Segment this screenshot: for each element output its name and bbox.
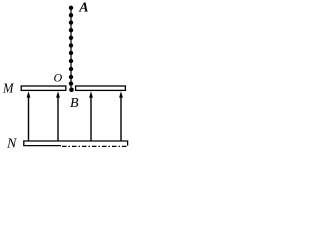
trajectory beads from A to B	[69, 6, 74, 93]
plate M right segment	[76, 86, 126, 90]
plate M left segment	[21, 86, 66, 90]
svg-text:O: O	[54, 71, 63, 85]
svg-text:M: M	[2, 82, 15, 97]
plate N bottom edge solid part	[23, 145, 61, 147]
field arrow 3	[89, 91, 93, 141]
field arrow 1	[27, 91, 31, 141]
field arrow 4	[119, 91, 123, 141]
svg-text:N: N	[6, 136, 17, 150]
svg-text:B: B	[70, 96, 79, 111]
plate N bar	[24, 141, 128, 146]
plate N bottom edge dash-dot part	[62, 145, 128, 147]
svg-text:A: A	[78, 1, 88, 16]
field arrow 2	[56, 91, 60, 141]
trajectory line A to B (thin)	[70, 8, 72, 90]
